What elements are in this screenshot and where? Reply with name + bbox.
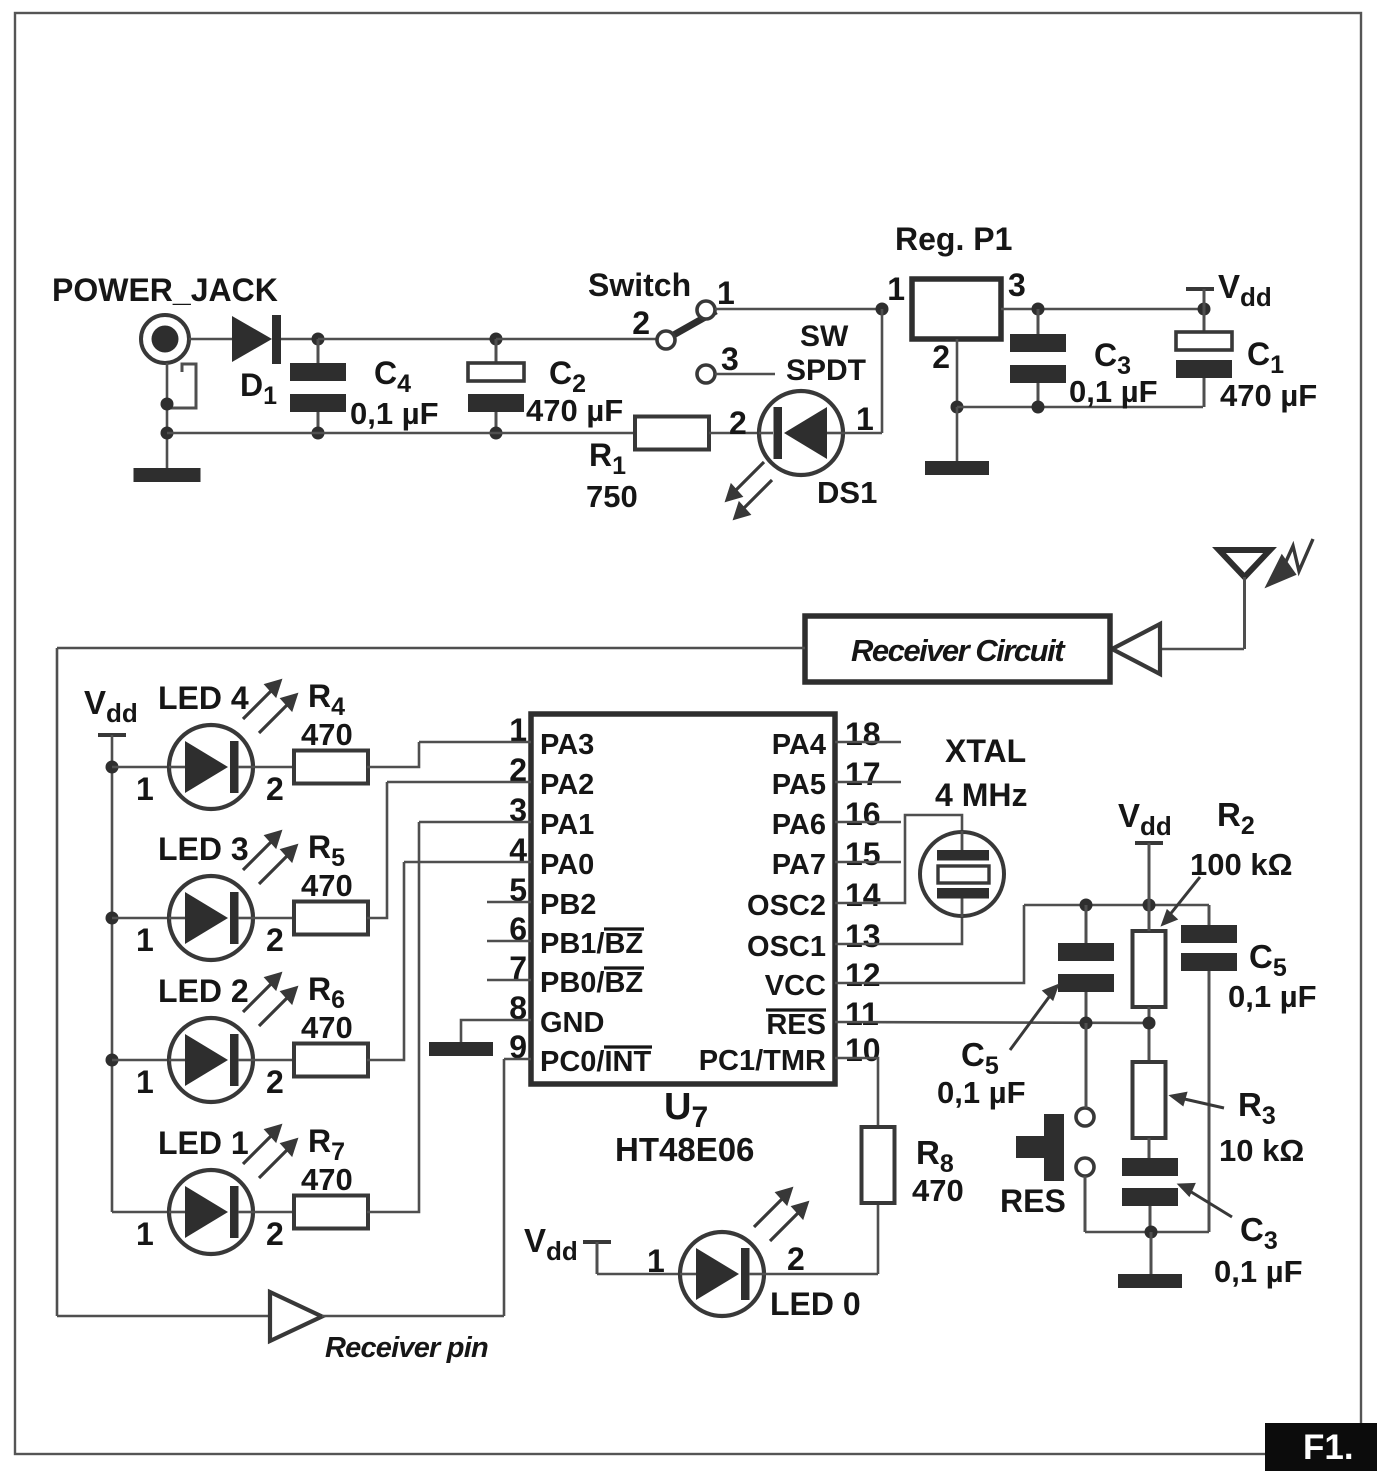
wire Vdd to LED 3 bbox=[112, 917, 169, 920]
svg-text:4 MHz: 4 MHz bbox=[935, 777, 1027, 813]
capacitor C5 (right) bbox=[1181, 925, 1237, 971]
overline PB1/BZ bbox=[604, 927, 644, 930]
svg-text:PA7: PA7 bbox=[772, 849, 826, 881]
wire bottom rail left bbox=[167, 432, 635, 435]
wire R1 to DS1 bbox=[709, 432, 759, 435]
svg-text:PB0/BZ: PB0/BZ bbox=[540, 967, 643, 999]
wire node to RES top bbox=[1085, 1023, 1088, 1108]
wire pin15 stub bbox=[835, 861, 901, 864]
power jack bbox=[141, 315, 196, 408]
svg-text:10: 10 bbox=[845, 1032, 881, 1068]
wire C4 bottom stub bbox=[317, 412, 320, 433]
wire C3 to ground rail bbox=[1149, 1206, 1152, 1232]
wire Vdd to LED 2 bbox=[112, 1059, 169, 1062]
wire R2 top stub bbox=[1148, 905, 1151, 931]
svg-text:DS1: DS1 bbox=[817, 475, 877, 510]
overline PB0/BZ bbox=[604, 966, 644, 969]
wire pin18 stub bbox=[835, 741, 901, 744]
overline RES bbox=[766, 1008, 826, 1011]
arrows LED0 light bbox=[754, 1189, 807, 1241]
arrow to R2 bbox=[1163, 877, 1200, 924]
node C3 bottom bbox=[1032, 401, 1045, 414]
svg-text:Vdd: Vdd bbox=[524, 1222, 578, 1266]
svg-text:18: 18 bbox=[845, 716, 881, 752]
wire pin8 GND bbox=[461, 1020, 531, 1042]
arrow to C5 left bbox=[1010, 986, 1057, 1050]
wire pin9 PC0 bbox=[504, 1058, 531, 1061]
led LED 1 bbox=[169, 1170, 253, 1254]
power Vdd (LED0) bbox=[583, 1240, 611, 1244]
svg-text:OSC2: OSC2 bbox=[747, 890, 826, 922]
svg-text:Receiver pin: Receiver pin bbox=[325, 1332, 488, 1364]
wire RES bottom down bbox=[1084, 1176, 1087, 1232]
wire C1 top stub bbox=[1203, 309, 1206, 332]
svg-text:470 µF: 470 µF bbox=[526, 393, 623, 428]
wire C5 right top stub bbox=[1208, 905, 1211, 925]
diode D1 bbox=[232, 315, 281, 364]
svg-text:R5: R5 bbox=[308, 829, 345, 872]
wire C2 bottom stub bbox=[495, 412, 498, 433]
svg-text:1: 1 bbox=[136, 1064, 154, 1100]
svg-text:XTAL: XTAL bbox=[945, 733, 1026, 769]
wire pin10 to R8 bbox=[835, 1058, 878, 1127]
pushbutton RES bbox=[1016, 1108, 1094, 1181]
arrows LED 4 light bbox=[243, 681, 296, 733]
svg-text:C5: C5 bbox=[961, 1036, 999, 1080]
node jack bottom rail bbox=[161, 427, 174, 440]
wire C2 top stub bbox=[495, 339, 498, 363]
wire switch pin 3 stub bbox=[715, 373, 775, 376]
wire left rail down bbox=[56, 648, 59, 1316]
ground right bbox=[1118, 1274, 1182, 1288]
svg-text:470: 470 bbox=[301, 868, 353, 903]
svg-text:3: 3 bbox=[1008, 267, 1026, 303]
svg-text:Vdd: Vdd bbox=[1218, 268, 1272, 312]
svg-text:PA4: PA4 bbox=[772, 729, 826, 761]
svg-text:PA2: PA2 bbox=[540, 769, 594, 801]
svg-text:0,1 µF: 0,1 µF bbox=[1228, 979, 1317, 1014]
wire pin16 stub bbox=[835, 821, 901, 824]
svg-text:1: 1 bbox=[856, 401, 874, 437]
wire Vdd to LED0 bbox=[597, 1273, 680, 1276]
svg-text:16: 16 bbox=[845, 796, 881, 832]
svg-text:LED 3: LED 3 bbox=[158, 831, 249, 867]
ground P1 bbox=[925, 461, 989, 475]
figure tag F1 bbox=[1265, 1423, 1377, 1471]
svg-text:2: 2 bbox=[729, 405, 747, 441]
node C5 left bottom bbox=[1080, 1017, 1093, 1030]
switch SW SPDT bbox=[657, 301, 716, 383]
svg-text:1: 1 bbox=[647, 1243, 665, 1279]
wire C3 bottom stub bbox=[1037, 383, 1040, 407]
svg-text:15: 15 bbox=[845, 836, 881, 872]
svg-text:LED 4: LED 4 bbox=[158, 680, 249, 716]
wire pin13 OSC1 to XTAL bbox=[835, 898, 962, 944]
power Vdd (LED column) bbox=[98, 733, 126, 737]
svg-text:100 kΩ: 100 kΩ bbox=[1190, 847, 1292, 882]
wire to receiver pin triangle bbox=[57, 1315, 270, 1318]
svg-text:2: 2 bbox=[932, 339, 950, 375]
node P1 ground rail bbox=[951, 401, 964, 414]
node C2 bottom bbox=[490, 427, 503, 440]
wire R8 bottom bbox=[877, 1203, 880, 1274]
svg-text:LED 1: LED 1 bbox=[158, 1125, 249, 1161]
wire LED 2 to R6 bbox=[253, 1059, 294, 1062]
capacitor C4 bbox=[290, 363, 346, 412]
node Vdd LED 3 bbox=[106, 912, 119, 925]
svg-text:R8: R8 bbox=[916, 1134, 954, 1178]
svg-text:0,1 µF: 0,1 µF bbox=[1069, 374, 1158, 409]
resistor R3 bbox=[1133, 1062, 1166, 1138]
wire PC0 riser bbox=[503, 1059, 506, 1316]
capacitor C3 (regulator) bbox=[1010, 334, 1066, 383]
svg-text:750: 750 bbox=[586, 479, 638, 514]
svg-text:13: 13 bbox=[845, 918, 881, 954]
wire pin5 PB2 stub bbox=[487, 901, 531, 904]
svg-text:PA1: PA1 bbox=[540, 809, 594, 841]
svg-text:0,1 µF: 0,1 µF bbox=[937, 1075, 1026, 1110]
crystal XTAL bbox=[920, 831, 1004, 917]
wire pin7 PB0 stub bbox=[487, 979, 531, 982]
svg-text:11: 11 bbox=[845, 996, 879, 1032]
capacitor C3 (reset) bbox=[1122, 1158, 1178, 1206]
wire top ground rail bbox=[957, 406, 1203, 409]
svg-text:R1: R1 bbox=[589, 437, 626, 480]
svg-text:VCC: VCC bbox=[765, 970, 826, 1002]
power Vdd (regulator output) bbox=[1186, 287, 1214, 291]
wire jack to ground bbox=[166, 363, 169, 468]
svg-text:LED 0: LED 0 bbox=[770, 1286, 861, 1322]
node Vdd LED 4 bbox=[106, 761, 119, 774]
wire Vdd LED0 stub bbox=[596, 1242, 599, 1274]
node ground rail bbox=[1145, 1226, 1158, 1239]
wire pin14 OSC2 to XTAL bbox=[835, 815, 962, 903]
svg-text:C3: C3 bbox=[1240, 1211, 1278, 1255]
led DS1 bbox=[759, 391, 843, 475]
svg-text:PA0: PA0 bbox=[540, 849, 594, 881]
node Vdd LED 2 bbox=[106, 1054, 119, 1067]
antenna signal arrow bbox=[1268, 539, 1313, 585]
wire node to DS1 bbox=[881, 309, 884, 433]
wire C4 top stub bbox=[317, 339, 320, 363]
wire pin6 PB1 stub bbox=[487, 940, 531, 943]
overline PC0/INT bbox=[604, 1045, 652, 1048]
svg-text:470: 470 bbox=[301, 717, 353, 752]
led LED 3 bbox=[169, 876, 253, 960]
node C4 top bbox=[312, 333, 325, 346]
node Vdd output bbox=[1198, 303, 1211, 316]
svg-text:Vdd: Vdd bbox=[1118, 797, 1172, 841]
led LED 2 bbox=[169, 1018, 253, 1102]
arrow to C3 bottom bbox=[1180, 1185, 1232, 1218]
ground GND pin bbox=[429, 1042, 493, 1056]
svg-text:Switch: Switch bbox=[588, 267, 691, 303]
wire bottom ground rail bbox=[1085, 1231, 1209, 1234]
wire pin11 RES rail bbox=[835, 1022, 1149, 1023]
arrows LED 1 light bbox=[243, 1126, 296, 1178]
svg-text:SW: SW bbox=[800, 320, 849, 353]
wire LED0 to R8 bbox=[764, 1273, 878, 1276]
svg-text:1: 1 bbox=[136, 771, 154, 807]
svg-text:PA5: PA5 bbox=[772, 769, 826, 801]
resistor R4 bbox=[294, 751, 368, 784]
wire C5 left bottom stub bbox=[1085, 992, 1088, 1023]
wire R3 to C3 bbox=[1148, 1138, 1151, 1158]
wire R2 to R3 bbox=[1148, 1007, 1151, 1062]
wire C1 bottom stub bbox=[1203, 378, 1206, 407]
svg-text:Reg. P1: Reg. P1 bbox=[895, 221, 1012, 257]
led LED 4 bbox=[169, 725, 253, 809]
arrow to R3 bbox=[1172, 1094, 1224, 1109]
svg-text:GND: GND bbox=[540, 1007, 604, 1039]
svg-text:D1: D1 bbox=[240, 367, 277, 410]
wire C3 top stub bbox=[1037, 309, 1040, 334]
wire P1 output bbox=[1001, 308, 1204, 311]
svg-text:PB1/BZ: PB1/BZ bbox=[540, 928, 643, 960]
svg-text:Receiver Circuit: Receiver Circuit bbox=[851, 633, 1066, 668]
svg-text:0,1 µF: 0,1 µF bbox=[350, 396, 439, 431]
wire antenna to buffer bbox=[1160, 648, 1244, 651]
wire C5 right down bbox=[1208, 971, 1211, 1232]
svg-text:HT48E06: HT48E06 bbox=[615, 1131, 754, 1168]
wire to ground P1 bbox=[956, 407, 959, 461]
svg-text:2: 2 bbox=[266, 922, 284, 958]
svg-text:470: 470 bbox=[912, 1173, 964, 1208]
wire P1 pin2 down bbox=[956, 339, 959, 407]
resistor R5 bbox=[294, 902, 368, 935]
wire Vdd to LED 1 bbox=[112, 1211, 169, 1214]
svg-text:10 kΩ: 10 kΩ bbox=[1219, 1133, 1304, 1168]
svg-text:PA6: PA6 bbox=[772, 809, 826, 841]
wire R5 to pin2 bbox=[367, 782, 387, 918]
resistor R1 bbox=[635, 417, 709, 450]
wire LED 1 to R7 bbox=[253, 1211, 294, 1214]
wire pin1 PA3 bbox=[419, 741, 531, 744]
wire pin3 PA1 bbox=[419, 821, 531, 824]
wire C5 left top stub bbox=[1085, 905, 1088, 943]
svg-text:PA3: PA3 bbox=[540, 729, 594, 761]
resistor R8 bbox=[862, 1127, 895, 1203]
ground power jack bbox=[134, 468, 201, 482]
wire jack to D1 bbox=[189, 338, 232, 341]
svg-text:POWER_JACK: POWER_JACK bbox=[52, 272, 278, 308]
svg-text:3: 3 bbox=[721, 341, 739, 377]
svg-text:PC1/TMR: PC1/TMR bbox=[699, 1045, 826, 1077]
svg-text:RES: RES bbox=[1000, 1183, 1066, 1219]
svg-text:2: 2 bbox=[266, 1064, 284, 1100]
resistor R2 bbox=[1133, 931, 1166, 1007]
buffer triangle antenna bbox=[1112, 624, 1160, 674]
node C2 top bbox=[490, 333, 503, 346]
arrows LED 3 light bbox=[243, 832, 296, 884]
antenna bbox=[1219, 550, 1270, 649]
svg-text:F1.: F1. bbox=[1303, 1428, 1354, 1467]
receiver circuit block bbox=[805, 616, 1110, 682]
svg-text:470 µF: 470 µF bbox=[1220, 378, 1317, 413]
svg-text:RES: RES bbox=[766, 1009, 826, 1041]
svg-text:470: 470 bbox=[301, 1010, 353, 1045]
capacitor C5 (left) bbox=[1058, 943, 1114, 992]
arrows LED 2 light bbox=[243, 974, 296, 1026]
wire switch to regulator bbox=[715, 308, 882, 311]
wire pin2 PA2 bbox=[387, 781, 531, 784]
svg-text:R7: R7 bbox=[308, 1123, 345, 1166]
ic U7 HT48E06 bbox=[531, 714, 835, 1084]
wire R4 to pin1 bbox=[367, 742, 419, 767]
capacitor C2 bbox=[468, 363, 524, 412]
wire DS1 to node bbox=[843, 432, 882, 435]
wire receiver to left rail bbox=[57, 647, 805, 650]
svg-text:17: 17 bbox=[845, 756, 881, 792]
svg-text:2: 2 bbox=[787, 1241, 805, 1277]
svg-text:C4: C4 bbox=[374, 355, 411, 398]
svg-text:R4: R4 bbox=[308, 678, 345, 721]
wire C2 to switch bbox=[496, 338, 657, 341]
wire D1 to C4 node bbox=[281, 338, 318, 341]
svg-text:1: 1 bbox=[717, 275, 735, 311]
wire LED 4 to R4 bbox=[253, 766, 294, 769]
node R2 top bbox=[1143, 899, 1156, 912]
wire pin12 VCC riser bbox=[835, 905, 1024, 983]
svg-text:12: 12 bbox=[845, 957, 881, 993]
svg-text:14: 14 bbox=[845, 877, 881, 913]
svg-text:2: 2 bbox=[266, 771, 284, 807]
power Vdd (right) bbox=[1135, 841, 1163, 845]
svg-text:1: 1 bbox=[887, 271, 905, 307]
node C5 left top bbox=[1080, 899, 1093, 912]
svg-text:PB2: PB2 bbox=[540, 889, 596, 921]
svg-text:C2: C2 bbox=[549, 355, 586, 398]
svg-text:R3: R3 bbox=[1238, 1086, 1276, 1130]
wire Vdd stub bbox=[1203, 289, 1206, 309]
node jack sleeve bbox=[161, 398, 174, 411]
wire Vdd rail right bbox=[1024, 904, 1209, 907]
svg-text:C1: C1 bbox=[1247, 336, 1284, 379]
svg-text:PC0/INT: PC0/INT bbox=[540, 1046, 651, 1078]
wire pin17 stub bbox=[835, 781, 901, 784]
wire Vdd right stub bbox=[1148, 843, 1151, 905]
wire R7 to pin3 bbox=[367, 822, 419, 1212]
svg-text:LED 2: LED 2 bbox=[158, 973, 249, 1009]
arrows DS1 light bbox=[727, 462, 772, 518]
wire Vdd to LED 4 bbox=[112, 766, 169, 769]
node C4 bottom bbox=[312, 427, 325, 440]
svg-text:C5: C5 bbox=[1249, 938, 1287, 982]
wire R6 to pin4 bbox=[367, 862, 404, 1060]
wire C4 to C2 top bbox=[318, 338, 496, 341]
svg-text:R2: R2 bbox=[1217, 796, 1255, 840]
wire pin4 PA0 bbox=[404, 861, 531, 864]
capacitor C1 bbox=[1176, 332, 1232, 378]
svg-text:1: 1 bbox=[136, 922, 154, 958]
buffer triangle receiver pin bbox=[270, 1292, 322, 1341]
resistor R7 bbox=[294, 1196, 368, 1229]
svg-text:470: 470 bbox=[301, 1162, 353, 1197]
node R2 R3 junction bbox=[1143, 1017, 1156, 1030]
svg-text:R6: R6 bbox=[308, 971, 345, 1014]
wire LED 3 to R5 bbox=[253, 917, 294, 920]
regulator P1 bbox=[912, 279, 1001, 339]
svg-text:Vdd: Vdd bbox=[84, 684, 138, 728]
node regulator input bbox=[876, 303, 889, 316]
svg-text:2: 2 bbox=[632, 305, 650, 341]
wire Vdd rail left bbox=[111, 735, 114, 1212]
svg-text:1: 1 bbox=[136, 1216, 154, 1252]
svg-text:2: 2 bbox=[266, 1216, 284, 1252]
resistor R6 bbox=[294, 1044, 368, 1077]
svg-text:0,1 µF: 0,1 µF bbox=[1214, 1254, 1303, 1289]
svg-text:SPDT: SPDT bbox=[786, 354, 866, 387]
node C3 top bbox=[1032, 303, 1045, 316]
svg-text:U7: U7 bbox=[664, 1086, 708, 1134]
wire receiver pin to PC0 bbox=[322, 1315, 504, 1318]
led LED 0 bbox=[680, 1232, 764, 1316]
svg-text:OSC1: OSC1 bbox=[747, 931, 826, 963]
wire to ground right bbox=[1150, 1232, 1153, 1274]
